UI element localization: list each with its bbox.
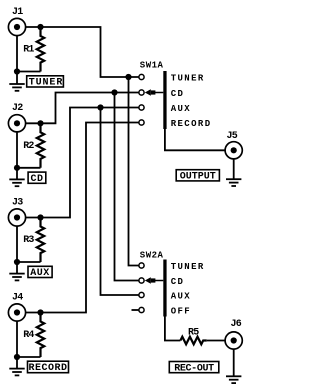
node junction bus CD: [111, 89, 117, 95]
resistor R3: [37, 218, 44, 263]
wire R4 bottom to ground node: [17, 356, 41, 358]
switch SW2A pin 3: [139, 292, 144, 297]
svg-text:J5: J5: [227, 131, 238, 142]
wire J1 shield down: [16, 36, 18, 84]
ground J3: [9, 274, 24, 281]
wire J6 shield down: [233, 349, 235, 376]
svg-text:TUNER: TUNER: [29, 78, 64, 89]
switch SW1A pin 2: [139, 90, 144, 95]
node junction J3/R3: [37, 214, 43, 220]
ground J1: [9, 84, 24, 91]
svg-text:R5: R5: [188, 327, 199, 338]
resistor R1: [37, 27, 44, 72]
svg-text:AUX: AUX: [171, 292, 191, 302]
wire R3 bottom to ground node: [17, 261, 41, 263]
resistor R2: [37, 123, 44, 168]
connector J5: [225, 142, 242, 159]
wire R1 bottom to ground node: [17, 71, 41, 73]
svg-text:TUNER: TUNER: [171, 74, 205, 84]
connector J1: [8, 18, 25, 35]
svg-text:J2: J2: [12, 103, 23, 114]
switch SW2A common bar: [163, 260, 166, 317]
svg-text:AUX: AUX: [171, 104, 191, 114]
switch SW2A wiper arrow: [145, 277, 164, 283]
wire J2 to riser: [26, 93, 139, 124]
switch SW1A pin 1: [139, 74, 144, 79]
wire SW2A OFF stub: [132, 309, 139, 311]
svg-text:REC-OUT: REC-OUT: [174, 363, 214, 374]
connector J4: [8, 304, 25, 321]
resistor R4: [37, 313, 44, 358]
node junction J4 ground: [14, 354, 20, 360]
wire R5 to J6: [207, 340, 225, 342]
svg-text:OFF: OFF: [171, 307, 191, 317]
wire J4 shield down: [16, 321, 18, 369]
svg-text:R1: R1: [23, 45, 34, 56]
switch SW1A pin 3: [139, 105, 144, 110]
connector J6: [225, 332, 242, 349]
node junction J3 ground: [14, 259, 20, 265]
switch SW1A wiper arrow: [145, 89, 164, 95]
svg-text:J6: J6: [231, 319, 242, 330]
svg-text:J1: J1: [12, 7, 23, 18]
switch SW2A pin 1: [139, 263, 144, 268]
svg-text:R3: R3: [23, 235, 34, 246]
wire bus AUX to SW2A: [101, 108, 139, 296]
node junction J4/R4: [37, 309, 43, 315]
switch SW2A pin 2: [139, 278, 144, 283]
wire bus CD to SW2A: [115, 93, 139, 281]
svg-text:RECORD: RECORD: [28, 363, 67, 374]
svg-text:R2: R2: [23, 141, 34, 152]
node junction bus TUNER: [125, 74, 131, 80]
node junction J2 ground: [14, 165, 20, 171]
wire J1 to riser: [26, 27, 139, 77]
wire SW2A common to R5: [165, 317, 181, 341]
node junction J1/R1: [37, 24, 43, 30]
svg-text:J3: J3: [12, 197, 23, 208]
node junction J2/R2: [37, 120, 43, 126]
svg-text:OUTPUT: OUTPUT: [180, 172, 216, 183]
ground J4: [9, 369, 24, 376]
wire SW1A common to J5: [165, 129, 225, 150]
wire J4 to riser: [26, 123, 139, 313]
node junction J1 ground: [14, 68, 20, 74]
svg-text:SW2A: SW2A: [140, 251, 164, 261]
switch SW1A pin 4: [139, 120, 144, 125]
node label OUTPUT: [176, 170, 219, 183]
ground J5: [226, 179, 241, 186]
node label AUX: [28, 266, 52, 279]
node label RECORD: [28, 361, 69, 374]
svg-text:CD: CD: [30, 174, 43, 185]
node label REC-OUT: [169, 362, 219, 375]
wire R2 bottom to ground node: [17, 167, 41, 169]
svg-text:CD: CD: [171, 89, 185, 99]
connector J2: [8, 115, 25, 132]
svg-text:RECORD: RECORD: [171, 119, 212, 129]
node label CD: [28, 172, 46, 185]
ground J6: [226, 376, 241, 383]
svg-text:AUX: AUX: [30, 268, 50, 279]
svg-text:SW1A: SW1A: [140, 61, 164, 71]
svg-text:TUNER: TUNER: [171, 262, 205, 272]
switch SW2A pin 4: [139, 307, 144, 312]
svg-text:CD: CD: [171, 277, 185, 287]
node label TUNER: [27, 76, 64, 89]
svg-text:J4: J4: [12, 292, 23, 303]
wire J3 shield down: [16, 226, 18, 274]
resistor R5: [180, 337, 206, 345]
wire bus TUNER to SW2A: [129, 77, 139, 266]
switch SW1A common bar: [163, 71, 166, 129]
svg-text:R4: R4: [23, 330, 34, 341]
node junction bus AUX: [97, 104, 103, 110]
connector J3: [8, 209, 25, 226]
wire J5 shield down: [233, 159, 235, 179]
wire J2 shield down: [16, 132, 18, 180]
ground J2: [9, 179, 24, 186]
wire J3 to riser: [26, 108, 139, 218]
